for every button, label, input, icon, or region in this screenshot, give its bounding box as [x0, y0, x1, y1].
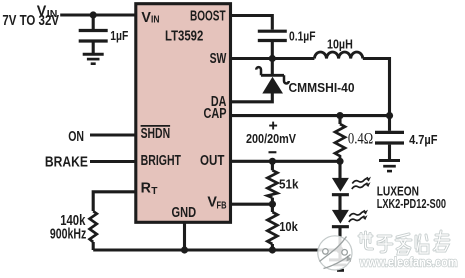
- label R1 51k: [279, 177, 299, 192]
- node VFB/R1/R2 junction: [269, 201, 276, 208]
- svg-text:1µF: 1µF: [110, 28, 128, 43]
- capacitor C2 0.1uF: [258, 31, 287, 58]
- pin label BRIGHT: [141, 153, 182, 169]
- svg-text:IN: IN: [151, 15, 160, 26]
- pin label GND: [172, 205, 197, 221]
- IC U1 LT3592 body: [136, 4, 231, 223]
- pin label VIN (pin 1): [141, 10, 159, 26]
- LED D3: [332, 195, 349, 227]
- svg-text:OUT: OUT: [200, 153, 225, 169]
- pin label CAP: [204, 106, 227, 122]
- svg-text:10k: 10k: [279, 219, 298, 234]
- pin label OUT: [200, 153, 225, 169]
- node R2 rail junction: [269, 246, 276, 253]
- svg-text:GND: GND: [172, 205, 197, 221]
- capacitor C3 4.7uF: [375, 116, 404, 159]
- wire RT pin: [93, 192, 136, 211]
- svg-text:7V TO 32V: 7V TO 32V: [2, 13, 59, 29]
- label + 200/20mV -: [246, 122, 296, 154]
- svg-text:900kHz: 900kHz: [50, 226, 86, 242]
- label 7V TO 32V: [2, 13, 59, 29]
- watermark text www.elecfans.com: [359, 255, 458, 270]
- svg-text:10µH: 10µH: [327, 37, 353, 52]
- label C3 4.7µF: [409, 132, 437, 147]
- svg-text:LT3592: LT3592: [165, 29, 203, 45]
- resistor R4 0.4 ohm: [335, 116, 345, 162]
- wire BRAKE to BRIGHT: [90, 160, 136, 163]
- svg-text:SHDN: SHDN: [141, 126, 171, 142]
- svg-text:200/20mV: 200/20mV: [246, 131, 296, 146]
- node OUT/R4/LED junction: [336, 158, 343, 165]
- watermark text dianzifashaoyou: [359, 231, 449, 254]
- wire SW to inductor: [231, 57, 315, 60]
- label R4 0.4 ohm: [348, 131, 373, 148]
- label C2 0.1µF: [289, 28, 316, 43]
- IC U1 part number label LT3592: [165, 29, 203, 45]
- svg-text:www.elecfans.com: www.elecfans.com: [359, 255, 458, 270]
- LED D2: [332, 161, 349, 194]
- label R2 10k: [279, 219, 298, 234]
- label C1 1µF: [110, 28, 128, 43]
- wire OUT: [231, 160, 341, 163]
- pin label BOOST: [190, 9, 226, 25]
- pin label SHDN with overline: [141, 126, 171, 142]
- pin label SW: [210, 51, 227, 67]
- inductor L1 10uH: [314, 52, 362, 59]
- label L1 10µH: [327, 37, 353, 52]
- label D1 CMMSHI-40: [289, 80, 355, 95]
- label BRAKE: [45, 154, 88, 170]
- svg-text:LXK2-PD12-S00: LXK2-PD12-S00: [377, 196, 446, 211]
- svg-text:51k: 51k: [279, 177, 299, 192]
- wire VFB: [231, 203, 273, 206]
- label LUXEON LXK2-PD12-S00: [377, 183, 446, 211]
- resistor R1 51k: [267, 161, 277, 204]
- node CAP/R4 junction: [336, 112, 343, 119]
- svg-text:CMMSHI-40: CMMSHI-40: [289, 80, 355, 95]
- wire GND pin down: [183, 222, 186, 250]
- wire CAP node: [231, 114, 390, 117]
- svg-text:BOOST: BOOST: [190, 9, 226, 25]
- node CAP/C3 junction: [386, 112, 393, 119]
- svg-text:BRAKE: BRAKE: [45, 154, 88, 170]
- svg-text:FB: FB: [217, 201, 227, 212]
- wire ON to SHDN: [90, 133, 136, 136]
- light arrows D3: [349, 210, 368, 222]
- svg-text:T: T: [151, 186, 158, 197]
- label 140k 900kHz: [50, 213, 86, 242]
- resistor R3 140k: [90, 211, 97, 250]
- wire LED string to ground: [338, 227, 341, 259]
- node SW/diode junction: [269, 55, 276, 62]
- svg-text:0.4Ω: 0.4Ω: [348, 131, 373, 148]
- svg-text:0.1µF: 0.1µF: [289, 28, 316, 43]
- wire BOOST to C2: [231, 16, 273, 30]
- node VIN/C1 junction: [90, 11, 97, 18]
- resistor R2 10k: [267, 204, 277, 250]
- ground symbol at C1: [83, 54, 104, 63]
- svg-text:BRIGHT: BRIGHT: [141, 153, 182, 169]
- capacitor C1 1uF: [79, 15, 108, 53]
- ground symbol at LED string: [329, 260, 351, 270]
- label VIN supply: [37, 3, 58, 20]
- label ON: [68, 129, 84, 145]
- wire inductor to CAP node: [363, 59, 390, 116]
- svg-text:ON: ON: [68, 129, 84, 145]
- node GND rail junction: [181, 246, 188, 253]
- ground symbol at C3: [379, 161, 400, 172]
- diode D1 schottky: [231, 59, 289, 102]
- wire ground rail: [93, 248, 340, 251]
- svg-text:SW: SW: [210, 51, 227, 67]
- pin label DA: [211, 94, 227, 110]
- svg-text:R: R: [141, 180, 152, 196]
- node OUT/R1 junction: [269, 158, 276, 165]
- pin label RT: [141, 180, 159, 197]
- wire VIN input: [60, 13, 136, 16]
- svg-text:CAP: CAP: [204, 106, 227, 122]
- watermark elecfans logo circle: [318, 236, 352, 270]
- node LED/rail junction: [336, 246, 343, 253]
- svg-text:4.7µF: 4.7µF: [409, 132, 437, 147]
- light arrows D2: [352, 177, 371, 189]
- pin label VFB: [207, 195, 226, 212]
- svg-text:V: V: [141, 10, 151, 26]
